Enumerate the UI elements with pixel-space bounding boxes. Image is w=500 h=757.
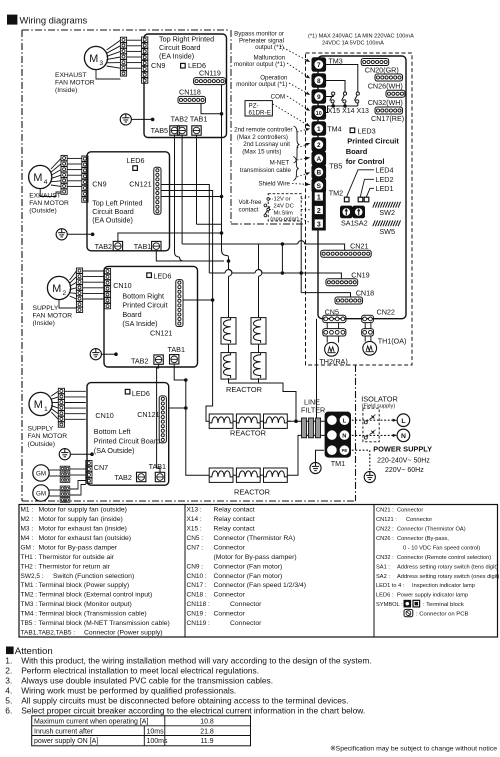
svg-text:※Specification may be subject: ※Specification may be subject to change … [330,745,497,752]
svg-text:3: 3 [99,60,103,67]
svg-text:Connector (By-pass,: Connector (By-pass, [397,536,449,542]
svg-text:LED1: LED1 [376,184,394,193]
svg-text:(Inside): (Inside) [55,87,77,94]
svg-text:CN10 :: CN10 : [187,573,207,580]
svg-text:power supply ON [A]: power supply ON [A] [34,738,98,745]
svg-text:TM4: TM4 [327,125,341,134]
svg-text:CN9: CN9 [151,61,165,70]
svg-text:TM2: TM2 [329,189,343,198]
svg-text:POWER SUPPLY: POWER SUPPLY [373,444,432,453]
svg-text:12V or: 12V or [274,196,291,202]
svg-text:: Terminal block: : Terminal block [423,602,464,608]
svg-text:X15 X14 X13: X15 X14 X13 [328,108,369,115]
svg-text:Printed Circuit: Printed Circuit [122,301,167,310]
svg-text:2: 2 [62,290,66,297]
svg-text:5.: 5. [5,695,12,705]
svg-text:CN121 :: CN121 : [376,517,397,523]
svg-text:(SA Outside): (SA Outside) [94,446,135,455]
svg-text:CN26 :: CN26 : [376,536,394,542]
svg-text:With this product, the wiring: With this product, the wiring installati… [21,655,372,665]
svg-text:TAB5: TAB5 [151,126,168,135]
svg-text:Connector (Thermistor RA): Connector (Thermistor RA) [214,535,296,542]
svg-text:M: M [34,399,43,411]
svg-text:FAN MOTOR: FAN MOTOR [29,200,69,207]
svg-text:TH2(RA): TH2(RA) [319,357,347,366]
svg-text:(Outside): (Outside) [28,441,56,448]
svg-text:CN9 :: CN9 : [187,563,204,570]
svg-text:Bottom Right: Bottom Right [122,291,164,300]
svg-text:Perform electrical installatio: Perform electrical installation to meet … [21,665,259,675]
svg-text:CN19 :: CN19 : [187,611,207,618]
svg-text:Motor for supply fan (inside): Motor for supply fan (inside) [39,516,123,523]
svg-text:SUPPLY: SUPPLY [28,426,54,433]
svg-text:S: S [317,183,322,190]
svg-text:Address setting rotary switch: Address setting rotary switch (tens digi… [397,564,498,570]
svg-text:0 - 10 VDC Fan speed control): 0 - 10 VDC Fan speed control) [403,545,480,551]
svg-text:(Max 2 controllers): (Max 2 controllers) [237,134,288,141]
svg-text:contact: contact [239,206,259,213]
svg-text:Connector: Connector [406,517,432,523]
svg-text:Volt-free: Volt-free [238,199,262,206]
svg-text:Thermistor for return air: Thermistor for return air [39,563,111,570]
svg-text:CN121: CN121 [129,179,151,188]
svg-text:Connector: Connector [214,544,246,551]
svg-text:TM1: TM1 [331,459,345,468]
svg-text:Switch (Function selection): Switch (Function selection) [53,573,134,580]
svg-text:8: 8 [317,78,321,85]
svg-text:L: L [343,419,347,425]
svg-text:CN20(GR): CN20(GR) [365,65,399,74]
svg-text:Connector: Connector [214,611,246,618]
svg-text:A: A [316,156,321,163]
svg-text:10.8: 10.8 [200,718,214,725]
svg-text:CN19: CN19 [351,271,369,280]
svg-text:LED6: LED6 [153,271,171,280]
svg-text:SW2: SW2 [379,208,395,217]
svg-text:: Connector on PCB: : Connector on PCB [416,612,468,618]
svg-text:COM: COM [271,93,285,100]
svg-text:CN5 :: CN5 : [187,535,204,542]
svg-text:LED3: LED3 [358,127,376,136]
svg-text:X15 :: X15 : [187,525,202,532]
svg-text:2: 2 [317,208,321,215]
svg-text:CN26(WH): CN26(WH) [368,82,403,91]
svg-text:4: 4 [44,179,48,186]
svg-text:(EA Outside): (EA Outside) [92,215,133,224]
svg-text:1: 1 [317,194,321,201]
svg-text:REACTOR: REACTOR [234,487,270,496]
svg-text:6.: 6. [5,705,12,715]
svg-text:CN118 :: CN118 : [187,601,211,608]
svg-text:Printed Circuit: Printed Circuit [347,137,399,146]
svg-text:2.: 2. [5,665,12,675]
svg-text:GM: GM [36,471,46,478]
svg-text:SW2,5 :: SW2,5 : [21,573,44,580]
svg-text:1: 1 [44,406,48,413]
svg-text:FAN MOTOR: FAN MOTOR [33,313,73,320]
svg-text:Relay contact: Relay contact [214,525,255,532]
svg-text:CN32 :: CN32 : [376,555,394,561]
svg-text:TH1 :: TH1 : [21,554,37,561]
svg-text:All supply circuits must be di: All supply circuits must be disconnected… [21,695,348,705]
svg-text:REACTOR: REACTOR [226,385,262,394]
svg-text:Select proper circuit breaker: Select proper circuit breaker according … [21,705,365,715]
svg-text:CN18: CN18 [356,289,374,298]
svg-text:CN21: CN21 [350,242,368,251]
svg-text:Printed Circuit Board: Printed Circuit Board [94,437,160,446]
svg-text:Connector: Connector [397,508,423,514]
svg-text:CN22 :: CN22 : [376,526,394,532]
svg-text:24VDC 1A 5VDC 100m: 24VDC 1A 5VDC 100mA [322,41,384,47]
svg-text:(*1) MAX 240VAC 1A MIN 220VA: (*1) MAX 240VAC 1A MIN 220VAC 100mA [308,34,414,40]
svg-text:M2 :: M2 : [21,516,34,523]
svg-text:TM3 :: TM3 : [21,601,38,608]
svg-text:2: 2 [317,142,321,149]
svg-text:TAB2 TAB1: TAB2 TAB1 [171,114,208,123]
svg-text:FAN MOTOR: FAN MOTOR [28,433,68,440]
svg-text:transmission cable: transmission cable [240,167,292,174]
svg-text:M1 :: M1 : [21,507,34,514]
svg-text:220V~ 60Hz: 220V~ 60Hz [385,467,424,474]
svg-text:Address setting rotary switch: Address setting rotary switch (ones digi… [397,574,500,580]
svg-text:Power supply indicator lamp: Power supply indicator lamp [397,593,468,599]
svg-text:TAB2: TAB2 [131,356,148,365]
svg-text:10: 10 [316,111,322,117]
svg-text:7: 7 [317,62,321,69]
svg-text:(Max 15 units): (Max 15 units) [242,149,281,156]
svg-text:CN118: CN118 [179,88,201,97]
svg-text:CN22: CN22 [377,307,395,316]
svg-text:SA2: SA2 [354,218,368,227]
svg-text:Inrush current after: Inrush current after [34,728,94,735]
svg-text:SYMBOL :: SYMBOL : [376,602,403,608]
svg-text:CN32(WH): CN32(WH) [368,98,403,107]
svg-text:TB5: TB5 [329,161,342,170]
svg-text:Wiring diagrams: Wiring diagrams [20,15,88,26]
svg-text:TAB1: TAB1 [168,345,185,354]
svg-text:TAB1: TAB1 [149,462,166,471]
svg-text:220-240V~ 50Hz: 220-240V~ 50Hz [377,457,430,464]
svg-text:Terminal block (Monitor output: Terminal block (Monitor output) [39,601,132,608]
svg-text:Terminal block (Transmission c: Terminal block (Transmission cable) [39,611,147,618]
svg-text:SUPPLY: SUPPLY [33,305,59,312]
svg-text:Board: Board [122,310,141,319]
svg-text:monitor output (*1): monitor output (*1) [234,61,285,68]
svg-text:Motor for By-pass damper: Motor for By-pass damper [39,544,118,551]
svg-text:Bottom Left: Bottom Left [94,427,131,436]
svg-text:Relay contact: Relay contact [214,516,255,523]
svg-text:TH2 :: TH2 : [21,563,37,570]
svg-text:Connector (Thermistor OA): Connector (Thermistor OA) [397,526,466,532]
svg-text:TM4 :: TM4 : [21,611,38,618]
svg-text:24V DC: 24V DC [274,204,294,210]
svg-text:21.8: 21.8 [200,728,214,735]
svg-text:Thermistor for outside air: Thermistor for outside air [39,554,115,561]
svg-text:CN17(RE): CN17(RE) [371,114,404,123]
svg-text:SW5: SW5 [379,227,395,236]
svg-text:10ms: 10ms [147,728,165,735]
svg-text:FILTER: FILTER [301,405,325,414]
svg-text:Maximum current when operating: Maximum current when operating [A] [34,718,148,725]
svg-text:M: M [33,172,42,184]
svg-text:PZ-: PZ- [249,102,259,109]
svg-text:Board: Board [346,147,368,156]
svg-text:Motor for exhaust fan (outside: Motor for exhaust fan (outside) [39,535,132,542]
svg-text:monitor output (*1): monitor output (*1) [236,81,287,88]
svg-text:9: 9 [317,94,321,101]
svg-text:LED6 :: LED6 : [376,593,394,599]
svg-text:CN9: CN9 [92,179,106,188]
svg-text:EXHAUST: EXHAUST [55,72,87,79]
svg-text:M4 :: M4 : [21,535,34,542]
svg-text:Connector: Connector [214,592,246,599]
svg-text:4.: 4. [5,685,12,695]
svg-text:1: 1 [317,126,321,133]
svg-text:(Outside): (Outside) [29,208,57,215]
svg-text:TM1 :: TM1 : [21,582,38,589]
svg-text:FAN MOTOR: FAN MOTOR [55,80,95,87]
svg-text:X13 :: X13 : [187,507,202,514]
svg-text:TAB1: TAB1 [134,242,151,251]
svg-text:REACTOR: REACTOR [230,428,266,437]
svg-text:TB5 :: TB5 : [21,620,37,627]
svg-text:B: B [316,170,321,177]
svg-text:CN10: CN10 [113,281,131,290]
svg-text:LED6: LED6 [127,156,145,165]
svg-text:Connector (Fan motor): Connector (Fan motor) [214,573,283,580]
svg-text:N: N [342,434,346,440]
svg-text:CN17 :: CN17 : [187,582,207,589]
svg-text:TAB2: TAB2 [95,242,112,251]
svg-text:CN7 :: CN7 : [187,544,204,551]
svg-text:TH1(OA): TH1(OA) [378,336,407,345]
svg-text:Terminal block (M-NET Transmis: Terminal block (M-NET Transmission cable… [39,620,170,627]
svg-text:(Motor for By-pass damper): (Motor for By-pass damper) [214,554,297,561]
svg-text:61DR-E: 61DR-E [249,109,271,116]
svg-text:TAB2: TAB2 [114,473,131,482]
svg-text:SA1: SA1 [341,218,355,227]
svg-text:11.9: 11.9 [200,738,213,745]
svg-text:PE: PE [342,448,348,453]
svg-text:LED4: LED4 [376,165,394,174]
svg-text:GM :: GM : [21,544,35,551]
svg-text:Wiring work must be performed: Wiring work must be performed by qualifi… [21,685,236,695]
svg-text:output (*1): output (*1) [255,44,284,51]
svg-text:SA1 :: SA1 : [376,564,390,570]
svg-text:X14 :: X14 : [187,516,202,523]
svg-text:Connector (Fan speed 1/2/3/4): Connector (Fan speed 1/2/3/4) [214,582,307,589]
svg-text:Terminal block (External contr: Terminal block (External control input) [39,592,153,599]
svg-text:CN18 :: CN18 : [187,592,207,599]
svg-text:(Inside): (Inside) [33,320,55,327]
svg-text:CN10: CN10 [95,411,113,420]
svg-text:CN21 :: CN21 : [376,508,394,514]
svg-text:Motor for exhaust fan (inside): Motor for exhaust fan (inside) [39,525,127,532]
svg-text:LED2: LED2 [376,175,394,184]
svg-text:N: N [401,433,406,440]
svg-text:Connector (Remote control sele: Connector (Remote control selection) [397,555,491,561]
svg-text:TAB1,TAB2,TAB5 :: TAB1,TAB2,TAB5 : [21,630,76,637]
svg-text:3.: 3. [5,675,12,685]
svg-text:M-NET: M-NET [270,160,290,167]
svg-text:Terminal block (Power supply): Terminal block (Power supply) [39,582,130,589]
svg-text:Motor for supply fan (outside): Motor for supply fan (outside) [39,507,127,514]
svg-text:Shield Wire: Shield Wire [258,181,290,188]
svg-text:GM: GM [36,491,46,498]
svg-text:M: M [52,283,61,295]
svg-text:(EA Inside): (EA Inside) [159,52,194,61]
svg-text:LED1 to 4 :: LED1 to 4 : [376,583,405,589]
svg-text:2nd remote controller: 2nd remote controller [234,126,292,133]
svg-text:100ms: 100ms [147,738,169,745]
svg-text:3: 3 [317,221,321,228]
svg-text:Always use double insulated PV: Always use double insulated PVC cable fo… [21,675,273,685]
svg-text:CN119 :: CN119 : [187,620,211,627]
svg-text:(SA Inside): (SA Inside) [122,319,157,328]
svg-text:2nd Lossnay unit: 2nd Lossnay unit [243,141,290,148]
svg-text:CN7: CN7 [94,463,108,472]
svg-text:SA2 :: SA2 : [376,574,390,580]
svg-text:M3 :: M3 : [21,525,34,532]
svg-text:Inspection indicator lamp: Inspection indicator lamp [412,583,475,589]
svg-text:Connector (Power supply): Connector (Power supply) [84,630,163,637]
svg-text:CN119: CN119 [199,69,221,78]
svg-text:Connector (Fan motor): Connector (Fan motor) [214,563,283,570]
svg-text:Connector: Connector [230,620,262,627]
svg-text:1.: 1. [5,655,12,665]
svg-text:Relay contact: Relay contact [214,507,255,514]
svg-text:M: M [89,53,98,65]
svg-text:ISOLATOR: ISOLATOR [361,394,398,403]
svg-text:Connector: Connector [230,601,262,608]
svg-text:LED6: LED6 [132,389,150,398]
svg-text:(non-polar): (non-polar) [270,217,298,223]
svg-text:L: L [401,418,405,425]
svg-text:TM2 :: TM2 : [21,592,38,599]
svg-text:CN121: CN121 [150,329,172,338]
